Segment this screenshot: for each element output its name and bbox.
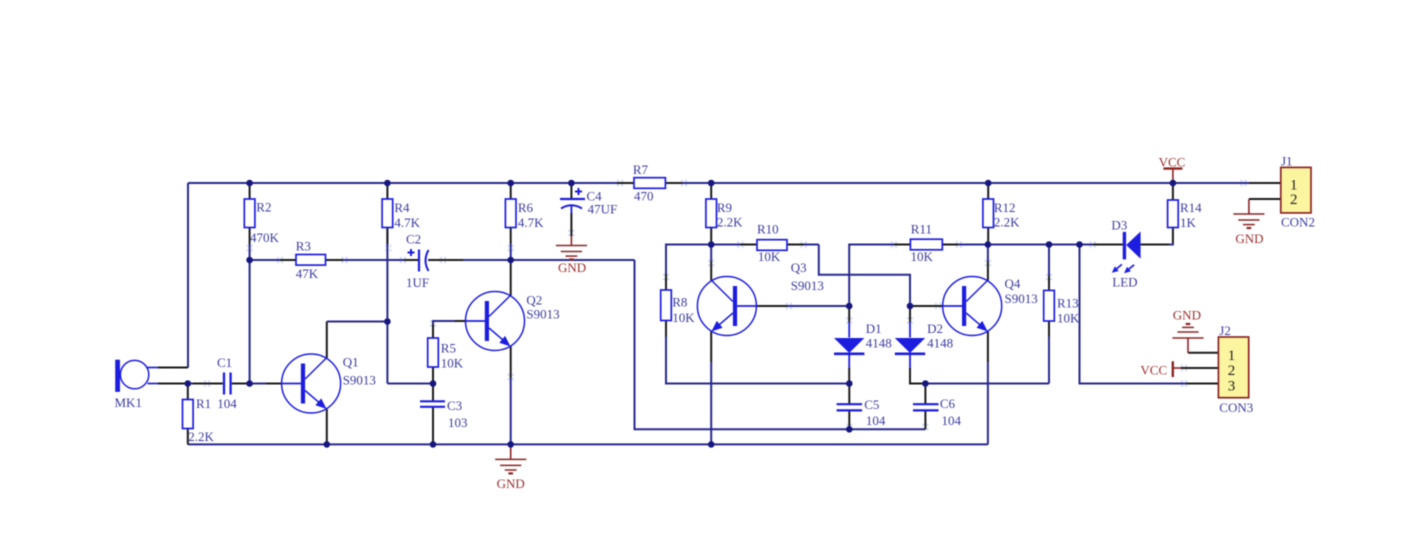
svg-text:47K: 47K (296, 266, 319, 281)
svg-text:VCC: VCC (1140, 363, 1167, 378)
svg-text:2.2K: 2.2K (717, 215, 743, 230)
svg-text:VCC: VCC (1159, 155, 1186, 170)
svg-text:GND: GND (1235, 231, 1263, 246)
svg-text:R4: R4 (394, 200, 410, 215)
svg-text:R3: R3 (296, 239, 311, 254)
svg-text:S9013: S9013 (526, 307, 559, 322)
svg-text:R6: R6 (518, 200, 534, 215)
svg-text:2: 2 (1290, 192, 1298, 208)
svg-text:CON2: CON2 (1281, 215, 1315, 230)
svg-text:104: 104 (217, 396, 237, 411)
svg-text:Q1: Q1 (343, 355, 359, 370)
svg-text:C5: C5 (864, 397, 879, 412)
svg-text:C2: C2 (406, 232, 421, 247)
svg-text:R10: R10 (757, 222, 779, 237)
svg-text:CON3: CON3 (1219, 400, 1253, 415)
svg-text:10K: 10K (911, 249, 934, 264)
svg-text:S9013: S9013 (1005, 291, 1038, 306)
svg-text:R12: R12 (994, 200, 1016, 215)
svg-text:Q3: Q3 (791, 260, 807, 275)
svg-text:1: 1 (1228, 348, 1236, 364)
svg-text:2.2K: 2.2K (994, 215, 1020, 230)
svg-text:R8: R8 (672, 295, 687, 310)
svg-text:J2: J2 (1219, 323, 1231, 338)
svg-text:C6: C6 (940, 396, 956, 411)
svg-text:4148: 4148 (927, 336, 953, 351)
svg-text:Q2: Q2 (526, 293, 542, 308)
svg-text:R14: R14 (1180, 200, 1202, 215)
svg-text:470: 470 (634, 189, 654, 204)
svg-text:LED: LED (1112, 275, 1137, 290)
svg-text:R9: R9 (717, 200, 732, 215)
svg-text:47UF: 47UF (588, 202, 618, 217)
svg-text:R7: R7 (633, 162, 649, 177)
svg-text:10K: 10K (441, 356, 464, 371)
svg-text:2.2K: 2.2K (188, 429, 214, 444)
svg-text:R2: R2 (256, 199, 271, 214)
svg-text:103: 103 (448, 415, 468, 430)
svg-text:4148: 4148 (866, 336, 892, 351)
svg-text:10K: 10K (758, 249, 781, 264)
svg-text:10K: 10K (1057, 311, 1080, 326)
svg-text:D2: D2 (927, 321, 943, 336)
svg-text:1K: 1K (1180, 215, 1197, 230)
svg-text:1UF: 1UF (406, 275, 429, 290)
svg-text:470K: 470K (250, 230, 280, 245)
svg-text:GND: GND (558, 260, 586, 275)
svg-text:GND: GND (497, 476, 525, 491)
svg-text:C3: C3 (447, 398, 462, 413)
svg-text:2: 2 (1228, 363, 1236, 379)
svg-text:104: 104 (866, 413, 886, 428)
svg-text:S9013: S9013 (343, 373, 376, 388)
svg-text:R11: R11 (911, 222, 932, 237)
svg-text:3: 3 (1228, 378, 1236, 394)
svg-text:4.7K: 4.7K (518, 215, 544, 230)
svg-text:C1: C1 (217, 355, 232, 370)
svg-text:10K: 10K (672, 310, 695, 325)
svg-text:4.7K: 4.7K (394, 215, 420, 230)
svg-text:J1: J1 (1281, 154, 1293, 169)
svg-text:R5: R5 (441, 341, 456, 356)
svg-text:MK1: MK1 (115, 395, 142, 410)
svg-text:GND: GND (1173, 308, 1201, 323)
svg-text:R1: R1 (196, 396, 211, 411)
svg-text:Q4: Q4 (1005, 276, 1021, 291)
svg-text:S9013: S9013 (791, 278, 824, 293)
svg-text:104: 104 (942, 413, 962, 428)
svg-text:D3: D3 (1111, 218, 1127, 233)
svg-text:R13: R13 (1057, 296, 1079, 311)
svg-text:D1: D1 (866, 321, 882, 336)
